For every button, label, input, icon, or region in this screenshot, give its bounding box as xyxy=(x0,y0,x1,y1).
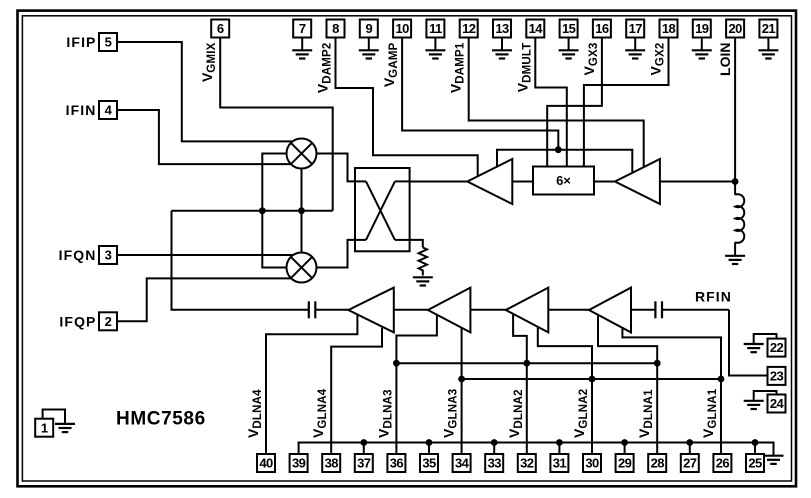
wire ground pin stub xyxy=(558,443,560,455)
svg-text:21: 21 xyxy=(762,21,776,36)
svg-text:34: 34 xyxy=(455,456,470,471)
frequency multiplier 6x xyxy=(533,167,594,195)
op-amp LNA stage 1 xyxy=(589,288,631,333)
pin 30 xyxy=(583,454,601,472)
wire VDLNA4 LNA4 drain to pin 40 xyxy=(266,315,357,454)
wire VDLNA bus xyxy=(396,362,657,364)
pin 26 xyxy=(713,454,731,472)
svg-text:19: 19 xyxy=(695,21,709,36)
wire VGLNA4 LNA4 gate to pin 38 xyxy=(331,328,382,454)
svg-text:5: 5 xyxy=(105,35,112,50)
svg-text:25: 25 xyxy=(748,456,762,471)
svg-text:7: 7 xyxy=(299,21,306,36)
wire RFIN from pin 23 xyxy=(729,310,768,376)
junction ground bus xyxy=(426,439,433,446)
svg-text:IFIP: IFIP xyxy=(66,34,96,50)
svg-text:20: 20 xyxy=(728,21,742,36)
mixer U-I (top) xyxy=(287,139,317,169)
pin 20 xyxy=(726,20,744,38)
svg-text:23: 23 xyxy=(770,369,784,384)
wire xyxy=(368,38,370,50)
wire xyxy=(568,38,570,50)
svg-text:29: 29 xyxy=(618,456,632,471)
junction VGLNA3 xyxy=(458,376,465,383)
svg-text:30: 30 xyxy=(585,456,599,471)
ground at bottom bus xyxy=(764,456,784,464)
inductor (LOIN shunt choke) xyxy=(735,194,744,243)
wire xyxy=(301,38,303,50)
op-amp LNA stage 4 xyxy=(348,288,393,333)
svg-text:17: 17 xyxy=(629,21,643,36)
capacitor (RFIN coupling) xyxy=(655,301,662,318)
svg-text:40: 40 xyxy=(259,456,273,471)
pin 29 xyxy=(616,454,634,472)
pin 35 xyxy=(420,454,438,472)
svg-text:15: 15 xyxy=(562,21,576,36)
pin 22 xyxy=(768,339,786,357)
svg-text:IFQP: IFQP xyxy=(59,313,96,329)
svg-text:2: 2 xyxy=(105,314,112,329)
wire VGMIX branch to both mixers xyxy=(262,154,286,268)
wire VGAMP to both LO amps xyxy=(497,150,632,173)
svg-text:18: 18 xyxy=(662,21,676,36)
wire xyxy=(501,38,503,50)
ground at pin 21 xyxy=(758,50,778,58)
pin 10 xyxy=(393,20,411,38)
junction ground bus xyxy=(556,439,563,446)
wire LO amp B to 6x xyxy=(594,181,615,183)
svg-text:6: 6 xyxy=(217,21,224,36)
wire xyxy=(434,38,436,50)
svg-text:13: 13 xyxy=(495,21,509,36)
pin 27 xyxy=(681,454,699,472)
wire LNA2 to LNA1 xyxy=(548,309,589,311)
pin 13 xyxy=(493,20,511,38)
wire VGX3 pin 16 to 6x block xyxy=(547,38,602,167)
wire hybrid to mixer Q xyxy=(317,240,356,268)
wire between mixer cores xyxy=(301,169,303,253)
pin 2 IFQP xyxy=(99,312,117,330)
svg-text:22: 22 xyxy=(770,340,784,355)
junction VDLNA3 xyxy=(393,360,400,367)
wire ground pin stub xyxy=(624,443,626,455)
ground at pin 19 xyxy=(692,50,712,58)
svg-text:24: 24 xyxy=(770,396,785,411)
svg-text:9: 9 xyxy=(365,21,372,36)
wire VGLNA bus xyxy=(462,378,721,380)
wire hybrid to LO amp A xyxy=(410,181,468,183)
ground at pin 9 xyxy=(359,50,379,58)
svg-text:38: 38 xyxy=(325,456,339,471)
junction VGMIX bus / mixer core link xyxy=(298,207,305,214)
pin 36 xyxy=(387,454,405,472)
pin 21 xyxy=(759,20,777,38)
wire bottom ground bus xyxy=(299,443,774,456)
svg-text:3: 3 xyxy=(105,248,112,263)
svg-text:33: 33 xyxy=(488,456,502,471)
ground at pin 11 xyxy=(425,50,445,58)
pin 18 xyxy=(660,20,678,38)
wire pin 22 to ground xyxy=(754,334,777,343)
wire ground pin stub xyxy=(493,443,495,455)
wire xyxy=(701,38,703,50)
junction ground bus xyxy=(491,439,498,446)
wire LOIN to LO amp B xyxy=(660,181,735,183)
wire pin 24 to ground xyxy=(754,391,777,400)
wire VGLNA2 LNA2 gate to pin 30 xyxy=(538,327,592,454)
wire VDMULT pin 14 to 6x block xyxy=(535,38,567,167)
ground at pin 24 xyxy=(744,401,764,409)
junction ground bus xyxy=(686,439,693,446)
junction ground bus xyxy=(752,439,759,446)
wire mixer I to hybrid xyxy=(317,154,356,182)
pin 24 xyxy=(768,395,786,413)
junction VDLNA1 xyxy=(654,360,661,367)
ground at pin 22 xyxy=(744,344,764,352)
op-amp LNA stage 2 xyxy=(506,288,549,333)
wire LOIN from pin 20 xyxy=(734,38,736,195)
wire xyxy=(767,38,769,50)
pin 5 IFIP xyxy=(99,33,117,51)
wire inductor to ground xyxy=(734,242,736,255)
wire IFIP to mixer I xyxy=(117,42,293,141)
pin 37 xyxy=(355,454,373,472)
svg-text:31: 31 xyxy=(553,456,567,471)
wire VDLNA3 LNA3 drain to pin 36 xyxy=(396,315,437,454)
svg-text:16: 16 xyxy=(595,21,609,36)
junction VGAMP xyxy=(555,146,562,153)
pin 19 xyxy=(693,20,711,38)
op-amp LO amplifier A (output stage) xyxy=(467,159,512,204)
wire VDLNA2 LNA2 drain to pin 32 xyxy=(513,314,527,454)
pin 17 xyxy=(626,20,644,38)
pin 7 xyxy=(293,20,311,38)
wire IFQN to mixer Q xyxy=(117,254,293,256)
wire VGLNA3 LNA3 gate to pin 34 xyxy=(461,328,463,454)
pin 15 xyxy=(560,20,578,38)
wire LNA4 to LNA3 xyxy=(394,309,428,311)
svg-text:35: 35 xyxy=(422,456,436,471)
svg-text:39: 39 xyxy=(292,456,306,471)
wire IFQP to mixer Q xyxy=(117,278,291,321)
pin 32 xyxy=(518,454,536,472)
svg-text:32: 32 xyxy=(520,456,534,471)
junction VGLNA1 xyxy=(718,376,725,383)
wire ground pin stub xyxy=(754,443,756,455)
pin 23 RFIN xyxy=(768,367,786,385)
svg-text:LOIN: LOIN xyxy=(717,43,733,76)
90-degree hybrid (LO quadrature splitter) xyxy=(355,168,410,251)
pin 39 xyxy=(290,454,308,472)
svg-text:26: 26 xyxy=(716,456,730,471)
svg-text:8: 8 xyxy=(332,21,339,36)
pin 12 xyxy=(460,20,478,38)
ground at pin 15 xyxy=(559,50,579,58)
wire 6x to LO amp A xyxy=(512,181,533,183)
svg-text:11: 11 xyxy=(429,21,442,36)
svg-text:HMC7586: HMC7586 xyxy=(116,409,206,430)
junction VGLNA2 xyxy=(589,376,596,383)
pin 11 xyxy=(426,20,444,38)
svg-text:37: 37 xyxy=(357,456,371,471)
pin 38 xyxy=(322,454,340,472)
wire VGMIX bus xyxy=(172,210,333,212)
wire ground pin stub xyxy=(689,443,691,455)
pin 6 xyxy=(211,20,229,38)
svg-text:1: 1 xyxy=(41,420,48,435)
wire VGX2 pin 18 to 6x block xyxy=(584,38,669,167)
ground at pin 13 xyxy=(492,50,512,58)
ground at pin 7 xyxy=(292,50,312,58)
wire cap to RFIN corner xyxy=(662,309,729,311)
junction VGMIX bus / mixer branch xyxy=(259,207,266,214)
wire IFIN to mixer I xyxy=(117,110,291,164)
wire VDAMP2 pin 8 to LO amp A xyxy=(336,38,478,177)
svg-text:IFIN: IFIN xyxy=(66,102,97,118)
pin 3 IFQN xyxy=(99,246,117,264)
pin 8 xyxy=(327,20,345,38)
ground at pin 17 xyxy=(625,50,645,58)
pin 4 IFIN xyxy=(99,101,117,119)
wire xyxy=(634,38,636,50)
wire VDLNA1 LNA1 drain to pin 28 xyxy=(598,315,657,454)
pin 31 xyxy=(550,454,568,472)
pin 9 xyxy=(360,20,378,38)
junction ground bus xyxy=(360,439,367,446)
pin 16 xyxy=(593,20,611,38)
wire pin1 to ground xyxy=(43,410,65,424)
svg-text:27: 27 xyxy=(683,456,697,471)
wire RF feed from LNA output xyxy=(172,211,309,310)
mixer U-Q (bottom) xyxy=(287,253,317,283)
wire ground pin stub xyxy=(363,443,365,455)
pin 1 xyxy=(35,419,53,437)
capacitor (RF coupling at mixer side) xyxy=(309,301,316,318)
pin 40 xyxy=(257,454,275,472)
wire LNA3 to LNA2 xyxy=(470,309,505,311)
resistor (hybrid termination) xyxy=(419,248,427,276)
wire VDAMP1 pin 12 to LO amp B xyxy=(469,38,644,167)
svg-text:RFIN: RFIN xyxy=(695,289,732,305)
wire VGMIX from pin 6 xyxy=(220,38,333,211)
wire VGLNA1 LNA1 gate to pin 26 xyxy=(622,328,721,454)
wire VGAMP pin 10 down xyxy=(402,38,558,150)
svg-text:6×: 6× xyxy=(556,173,571,188)
wire LNA1 to RF input cap xyxy=(631,309,655,311)
wire hybrid to resistor xyxy=(410,240,423,248)
svg-text:IFQN: IFQN xyxy=(59,247,97,263)
pin 14 xyxy=(526,20,544,38)
junction VDLNA2 xyxy=(523,360,530,367)
ground at pin 1 xyxy=(55,424,75,432)
svg-text:14: 14 xyxy=(529,21,544,36)
svg-text:10: 10 xyxy=(395,21,409,36)
pin 25 xyxy=(746,454,764,472)
svg-text:12: 12 xyxy=(462,21,476,36)
wire ground pin stub xyxy=(428,443,430,455)
svg-text:36: 36 xyxy=(390,456,404,471)
ground at resistor xyxy=(413,277,433,285)
wire cap to LNA4 output xyxy=(315,309,348,311)
pin 34 xyxy=(453,454,471,472)
pin 28 xyxy=(648,454,666,472)
junction ground bus xyxy=(621,439,628,446)
op-amp LNA stage 3 xyxy=(428,288,471,333)
pin 33 xyxy=(485,454,503,472)
svg-text:28: 28 xyxy=(651,456,665,471)
op-amp LO amplifier B (input stage) xyxy=(615,159,660,204)
junction LOIN xyxy=(732,178,739,185)
ground at LOIN choke xyxy=(725,256,745,264)
